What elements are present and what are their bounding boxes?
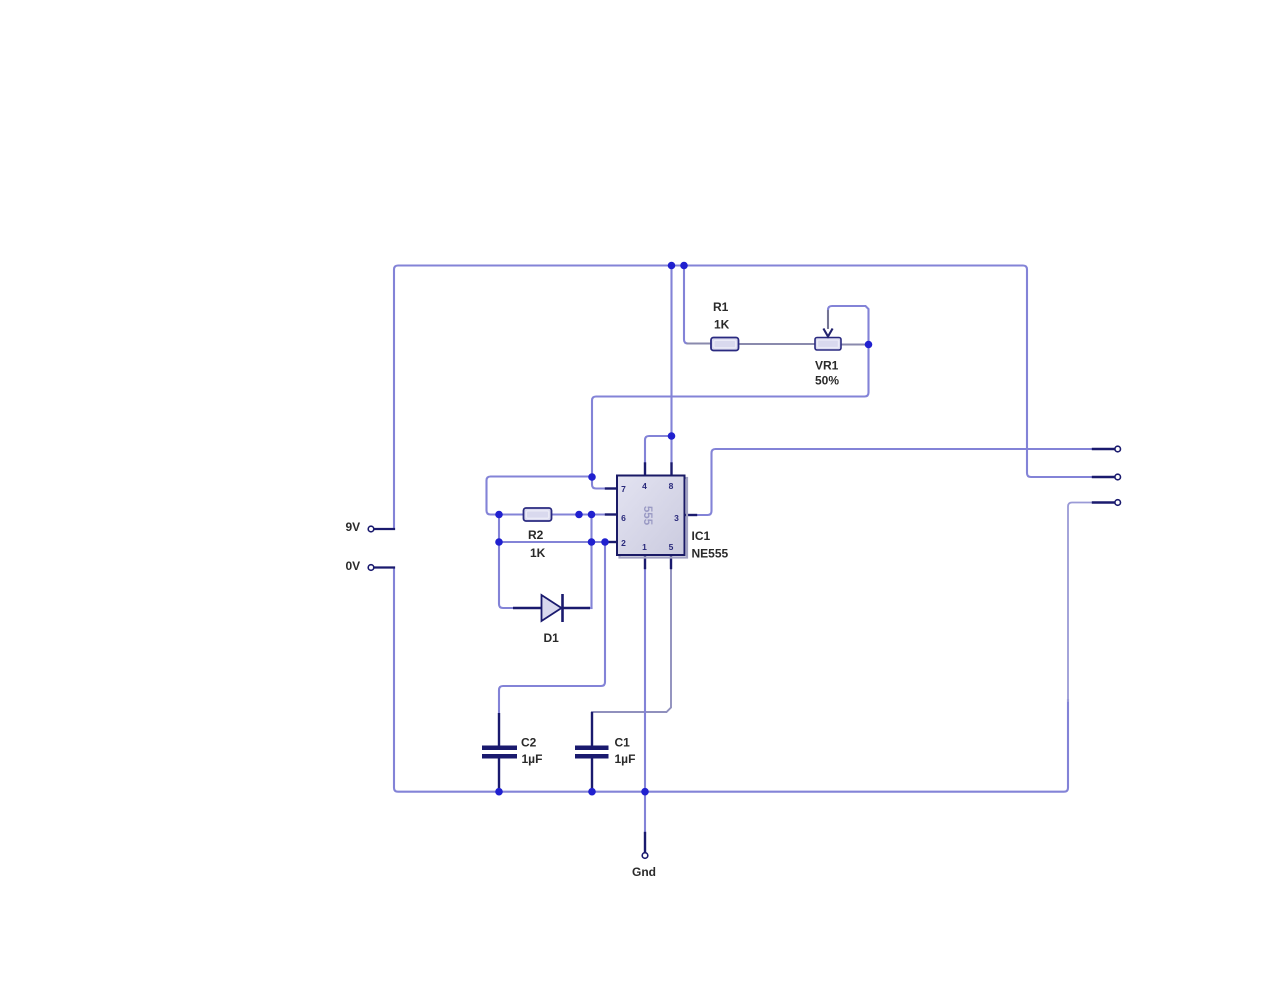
pin 2 stub [606, 541, 617, 543]
pin 1 stub [644, 555, 646, 568]
junction node pin2 right [601, 538, 609, 546]
resistor R1 [711, 338, 739, 351]
junction node top rail B [680, 262, 688, 270]
svg-text:C1: C1 [615, 736, 631, 750]
svg-text:C2: C2 [521, 736, 537, 750]
pin 7 stub [606, 487, 617, 489]
wire pin 2 row [499, 541, 606, 543]
svg-text:50%: 50% [815, 374, 839, 388]
junction node VR1 right [865, 341, 873, 349]
svg-text:R2: R2 [528, 528, 544, 542]
wire VR1 junction down and left to node above IC [592, 345, 869, 478]
0V terminal stub [375, 566, 395, 568]
wire pins 4+8 from top rail [670, 266, 672, 464]
svg-text:1K: 1K [530, 546, 546, 560]
wire 9V rail: terminal to top rail to right terminal T2 [394, 266, 1093, 530]
svg-text:1: 1 [642, 542, 647, 552]
svg-text:Gnd: Gnd [632, 865, 656, 879]
svg-text:5: 5 [669, 542, 674, 552]
wire pin 5 down to C1 [592, 568, 671, 712]
wire node loop left to R2 left [487, 477, 593, 515]
T2 terminal stub [1093, 476, 1114, 478]
junction node R2 right b [588, 511, 596, 519]
junction node C2 bottom [495, 788, 503, 796]
junction node pin2 mid [588, 538, 596, 546]
gnd lead dark [644, 833, 646, 852]
pin 4 stub [644, 464, 646, 476]
junction node pin2 left [495, 538, 503, 546]
wire vertical R2-left to pin2 row [498, 515, 500, 543]
svg-text:3: 3 [674, 513, 679, 523]
IC IC1 shadow [620, 478, 688, 558]
wire R1 feed from top rail [684, 266, 688, 344]
diode D1 [513, 594, 590, 622]
junction node R2 left [495, 511, 503, 519]
terminal 0V [368, 565, 374, 571]
junction node C1 bottom [588, 788, 596, 796]
IC IC1 body [617, 476, 685, 556]
9V terminal stub [375, 528, 395, 530]
svg-text:1K: 1K [714, 318, 730, 332]
svg-text:8: 8 [669, 481, 674, 491]
wire vertical R2-right to diode cathode [590, 515, 592, 609]
terminal out2 [1115, 474, 1121, 480]
capacitor C2 [482, 713, 517, 788]
wire diode cathode to vertical [588, 607, 592, 609]
svg-text:D1: D1 [544, 631, 560, 645]
wire pin 1 down to gnd [644, 568, 646, 833]
terminal out1 [1115, 446, 1121, 452]
wire R1 to VR1 [739, 343, 816, 345]
wire R2 row to pin 6 [499, 513, 606, 515]
wire branch to pin 4 [645, 436, 672, 464]
wire node to pin 7 jog [592, 477, 606, 489]
junction node R2 right a [575, 511, 583, 519]
T3 terminal stub [1093, 501, 1114, 503]
wire pin2 junction down to C2 [499, 542, 605, 713]
svg-text:1µF: 1µF [522, 752, 543, 766]
svg-text:555: 555 [641, 506, 653, 526]
potentiometer VR1 [815, 329, 841, 351]
svg-text:NE555: NE555 [692, 547, 729, 561]
wire diode loop left side [499, 542, 513, 608]
terminal out3 [1115, 500, 1121, 506]
wire 0V rail: terminal down to bottom rail to right terminal T3 [394, 568, 1068, 792]
svg-text:1µF: 1µF [615, 752, 636, 766]
wire VR1 wiper loop [828, 306, 869, 345]
junction node pin 7 [588, 473, 596, 481]
wire C1 bottom to rail [591, 788, 593, 792]
pin 6 stub [606, 513, 617, 515]
wire C2 bottom to rail [498, 788, 500, 792]
svg-text:6: 6 [621, 513, 626, 523]
junction node pins 4-8 [668, 432, 676, 440]
wire VR1 right end to junction [841, 344, 869, 346]
wire pin 3 output to terminal T1 [696, 449, 1093, 515]
svg-text:VR1: VR1 [815, 359, 839, 373]
T1 terminal stub [1093, 448, 1114, 450]
svg-text:9V: 9V [346, 520, 361, 534]
pin 5 stub [670, 555, 672, 568]
pin 3 stub [685, 514, 697, 516]
svg-text:4: 4 [642, 481, 647, 491]
svg-text:R1: R1 [713, 300, 729, 314]
pin 8 stub [670, 464, 672, 476]
svg-text:7: 7 [621, 484, 626, 494]
resistor R2 [524, 508, 552, 521]
terminal 9V [368, 526, 374, 532]
svg-text:0V: 0V [346, 559, 361, 573]
capacitor C1 [575, 712, 609, 788]
junction node top rail A [668, 262, 676, 270]
junction node gnd rail [641, 788, 649, 796]
terminal Gnd [642, 853, 648, 859]
svg-text:2: 2 [621, 538, 626, 548]
svg-text:IC1: IC1 [692, 529, 711, 543]
